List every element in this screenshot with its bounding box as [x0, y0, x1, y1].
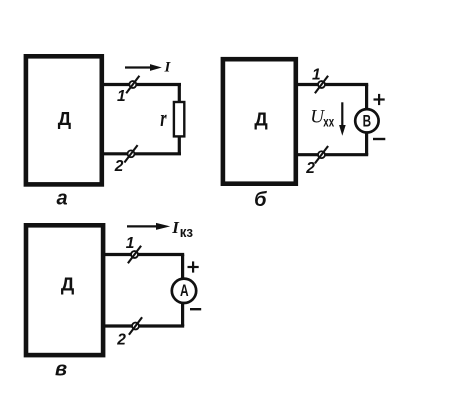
svg-text:кз: кз [180, 225, 193, 241]
svg-text:1: 1 [126, 235, 135, 252]
polarity minus (circuit v) [190, 308, 201, 310]
voltage arrow U xx [339, 102, 346, 136]
current arrow I кз (circuit v) [127, 223, 170, 230]
svg-text:1: 1 [117, 88, 126, 105]
svg-text:I: I [164, 60, 172, 76]
two-terminal network box Д (circuit a) [26, 56, 102, 184]
svg-text:б: б [254, 189, 267, 211]
wire right (voltmeter branch, circuit b) [365, 85, 368, 155]
wire bottom (terminal 2 run, circuit b) [296, 153, 368, 156]
svg-text:1: 1 [312, 67, 321, 84]
polarity minus (circuit b) [373, 138, 385, 140]
voltage label U xx [310, 107, 334, 130]
svg-text:2: 2 [305, 160, 315, 177]
wire bottom (terminal 2 run, circuit v) [103, 324, 184, 327]
wire right (resistor branch, circuit a) [178, 85, 181, 154]
svg-text:r: r [160, 106, 167, 132]
terminal 1 (circuit b) [315, 76, 328, 93]
voltmeter PV В (circuit b) [355, 109, 378, 132]
wire right (ammeter branch, circuit v) [181, 255, 184, 327]
terminal 1 (circuit a) [126, 76, 139, 93]
svg-text:Д: Д [61, 273, 75, 294]
terminal 1 (circuit v) [128, 246, 141, 263]
two-terminal network box Д (circuit v) [26, 225, 103, 355]
svg-text:2: 2 [114, 158, 124, 175]
current arrow I (circuit a) [125, 64, 162, 71]
svg-text:2: 2 [116, 331, 126, 348]
svg-text:А: А [180, 281, 189, 300]
resistor r (circuit a) [174, 102, 184, 136]
wire top (terminal 1 run, circuit a) [102, 83, 181, 86]
terminal 2 (circuit b) [315, 146, 328, 163]
svg-text:хх: хх [323, 114, 334, 129]
svg-text:в: в [55, 359, 67, 381]
ammeter PA А (circuit v) [172, 279, 196, 303]
wire top (terminal 1 run, circuit v) [103, 253, 184, 256]
terminal 2 (circuit a) [124, 145, 137, 162]
two-terminal network box Д (circuit b) [223, 59, 296, 184]
terminal 2 (circuit v) [129, 317, 142, 334]
wire bottom (terminal 2 run, circuit a) [102, 152, 181, 155]
current label I кз [171, 218, 193, 241]
polarity plus (circuit v) [188, 261, 199, 272]
svg-text:а: а [56, 188, 67, 210]
svg-text:В: В [363, 112, 372, 130]
polarity plus (circuit b) [374, 94, 385, 105]
svg-text:Д: Д [58, 108, 72, 129]
svg-text:Д: Д [254, 108, 268, 129]
wire top (terminal 1 run, circuit b) [296, 83, 368, 86]
